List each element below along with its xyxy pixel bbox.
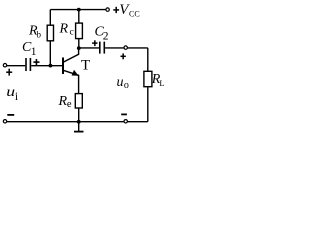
wire RL top <box>147 48 149 71</box>
resistor RL <box>144 71 152 86</box>
plus output <box>121 53 126 59</box>
capacitor C1 <box>26 58 30 71</box>
wire Rb top <box>49 10 51 26</box>
terminal VCC <box>106 8 109 11</box>
wire top rail <box>50 9 105 11</box>
wire Re bottom <box>78 108 80 122</box>
wire Rc bottom <box>78 39 80 49</box>
wire C2 to output terminal <box>105 47 124 49</box>
transistor T emitter arrow <box>72 70 79 76</box>
node collector junction <box>77 46 81 50</box>
resistor Rb <box>47 25 53 41</box>
svg-text:c: c <box>70 28 74 38</box>
resistor Re <box>75 94 82 108</box>
svg-text:T: T <box>81 58 90 74</box>
resistor Rc <box>76 23 83 38</box>
wire collector to C2 <box>79 47 99 49</box>
svg-text:i: i <box>15 91 18 103</box>
wire bottom rail right <box>128 121 148 123</box>
terminal output top <box>124 46 127 49</box>
svg-text:u: u <box>117 75 124 90</box>
minus uo <box>121 114 127 116</box>
wire Rc top <box>78 10 80 24</box>
wire RL bottom <box>147 87 149 122</box>
wire base <box>31 65 62 67</box>
terminal output bottom <box>124 120 127 123</box>
svg-text:2: 2 <box>103 30 109 42</box>
wire input to C1 <box>7 65 25 67</box>
wire bottom rail <box>7 121 124 123</box>
node VCC rail junction <box>77 8 81 12</box>
capacitor C2 <box>100 42 105 54</box>
svg-text:u: u <box>6 85 15 100</box>
transistor T collector lead <box>64 48 79 62</box>
svg-text:e: e <box>67 99 72 110</box>
svg-text:1: 1 <box>31 46 37 58</box>
svg-text:b: b <box>37 30 42 40</box>
minus ui <box>7 114 14 116</box>
svg-text:o: o <box>124 80 129 91</box>
plus C1 polarity <box>33 59 39 65</box>
svg-text:L: L <box>159 78 164 88</box>
wire output terminal to RL <box>128 47 148 49</box>
svg-text:CC: CC <box>129 9 140 18</box>
node emitter rail junction <box>77 120 81 124</box>
transistor T emitter lead <box>64 70 79 93</box>
transistor T base bar <box>62 58 64 75</box>
plus C2 polarity <box>92 40 97 46</box>
terminal input <box>3 63 6 66</box>
wire Rb bottom <box>49 41 51 66</box>
ground <box>78 122 80 131</box>
node base junction <box>49 64 53 68</box>
plus VCC <box>113 7 119 13</box>
plus input <box>6 69 12 76</box>
terminal input bottom <box>3 120 6 123</box>
svg-text:R: R <box>59 22 69 37</box>
